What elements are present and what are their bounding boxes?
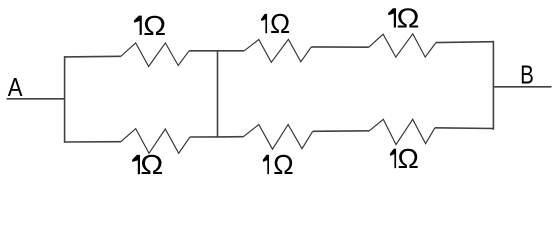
- svg-text:Ω: Ω: [143, 11, 166, 41]
- svg-text:Ω: Ω: [140, 151, 163, 181]
- wire: right vertical node: [492, 42, 494, 129]
- wire: middle vertical junction: [217, 51, 219, 137]
- svg-text:Ω: Ω: [273, 149, 294, 180]
- terminal label A: [8, 73, 24, 102]
- value label 1 ohm for R6: [390, 144, 419, 174]
- value label 1 ohm for R5: [263, 149, 294, 180]
- resistor R2 top-middle 1 ohm: [218, 39, 369, 62]
- svg-text:Ω: Ω: [398, 144, 419, 174]
- resistor R3 top-right 1 ohm: [369, 34, 494, 57]
- wire: terminal A lead: [7, 98, 65, 100]
- svg-text:Ω: Ω: [397, 4, 420, 34]
- resistor R5 bottom-middle 1 ohm: [218, 125, 370, 150]
- value label 1 ohm for R1: [134, 11, 166, 41]
- value label 1 ohm for R4: [132, 151, 163, 181]
- value label 1 ohm for R3: [388, 4, 420, 34]
- svg-text:B: B: [520, 60, 534, 89]
- resistor R4 bottom-left 1 ohm: [64, 129, 217, 154]
- svg-text:Ω: Ω: [270, 8, 290, 39]
- wire: terminal B lead: [493, 86, 551, 88]
- terminal label B: [520, 60, 534, 89]
- wire: left vertical node: [64, 57, 66, 142]
- value label 1 ohm for R2: [261, 8, 290, 39]
- resistor R1 top-left 1 ohm: [64, 43, 217, 67]
- resistor R6 bottom-right 1 ohm: [369, 119, 493, 144]
